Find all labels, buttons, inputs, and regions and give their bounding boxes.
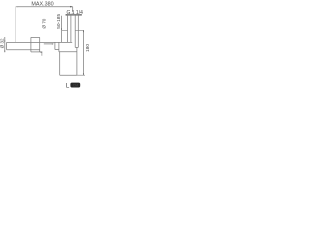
arrowhead leader mid — [52, 43, 54, 44]
wire body left — [58, 42, 60, 51]
arrowhead dia32 top — [4, 41, 5, 43]
wire vertical pipe outer right — [77, 16, 79, 48]
wire pipe left cap — [6, 42, 8, 49]
wire rim extension left — [62, 29, 68, 31]
arrowhead MAX left — [16, 6, 18, 7]
logo badge box — [70, 83, 80, 88]
svg-text:180: 180 — [85, 44, 90, 52]
wire body right jog — [75, 46, 78, 48]
wire extension right — [72, 7, 74, 13]
cup right wall — [76, 47, 78, 75]
cup top — [59, 51, 77, 53]
nut top — [31, 36, 40, 38]
wire leader arrow mid — [44, 43, 53, 45]
wire body step — [54, 42, 56, 49]
arrowhead MAX right — [70, 6, 72, 8]
wire dimension line MAX.380 — [16, 6, 73, 8]
wire extension left — [15, 7, 17, 43]
cup bottom — [60, 74, 77, 76]
svg-text:CM: CM — [73, 84, 78, 88]
wire horizontal pipe bottom — [7, 49, 40, 51]
wire vertical pipe inner left — [70, 16, 72, 43]
wire vertical pipe outer left — [67, 16, 69, 43]
wire vertical pipe inner right — [74, 16, 76, 48]
wire extension bottom right — [77, 74, 85, 76]
arrowhead right dim top — [83, 30, 84, 32]
svg-text:G.1 1/4: G.1 1/4 — [66, 10, 83, 16]
svg-text:50-185: 50-185 — [56, 14, 62, 29]
wire dimension line G — [66, 14, 82, 16]
svg-text:Ø 70: Ø 70 — [42, 18, 47, 28]
wire horizontal pipe top — [7, 41, 73, 43]
arrowhead 50-185 — [61, 29, 62, 31]
wire dimension line 50-185 — [61, 16, 63, 43]
wire tick below nut — [41, 52, 43, 56]
wire rim extension right — [75, 29, 84, 31]
svg-text:L: L — [66, 83, 70, 90]
cup left wall — [59, 52, 61, 75]
wire dimension line dia32 — [4, 37, 6, 52]
nut bottom — [31, 51, 42, 53]
arrowhead nut leader — [41, 52, 43, 53]
wire body step bottom — [55, 49, 59, 51]
svg-text:MAX.380: MAX.380 — [31, 2, 53, 8]
arrowhead dia32 bottom — [4, 50, 5, 52]
nut left — [30, 37, 32, 52]
svg-text:Ø 32: Ø 32 — [0, 38, 5, 48]
wire dimension line right — [82, 30, 84, 75]
arrowhead right dim bottom — [83, 73, 84, 75]
nut right — [39, 37, 41, 52]
